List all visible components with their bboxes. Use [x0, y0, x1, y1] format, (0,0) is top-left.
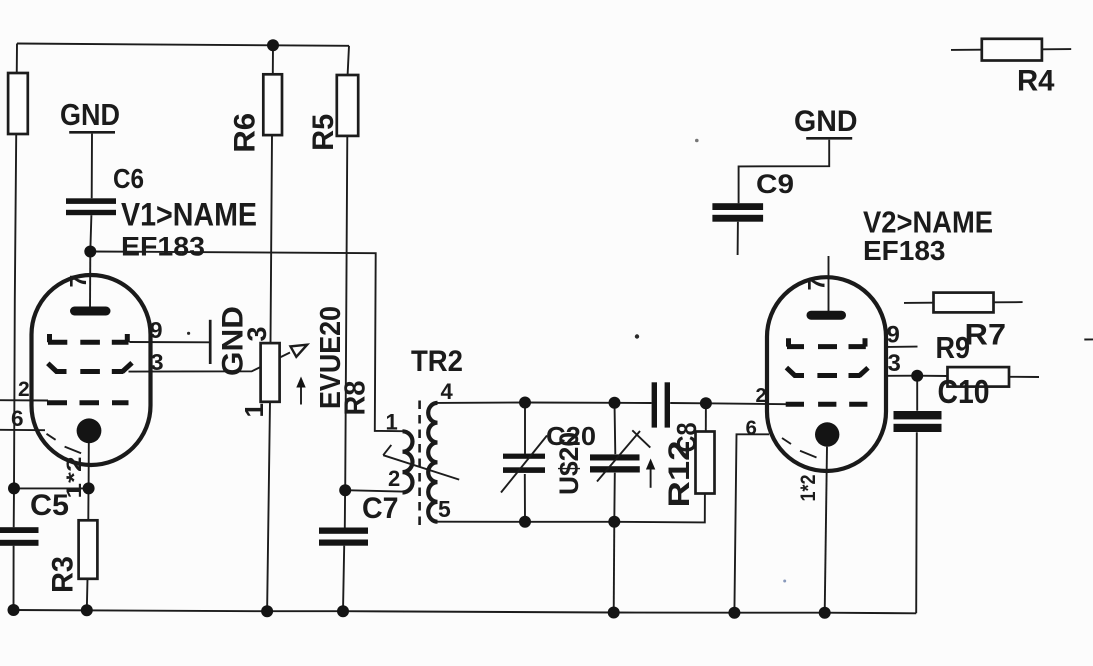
svg-text:GND: GND — [60, 98, 120, 132]
trimmer capacitor U$20 — [554, 430, 650, 495]
svg-text:2: 2 — [388, 466, 400, 491]
wire R12 top lead — [705, 403, 707, 431]
wire R5 branch — [343, 46, 349, 611]
svg-text:C7: C7 — [362, 492, 399, 525]
svg-text:7: 7 — [65, 275, 91, 288]
svg-text:R8: R8 — [340, 381, 372, 416]
gnd symbol top left — [60, 98, 120, 132]
wire left rail — [14, 44, 18, 611]
wire bottom rail — [14, 610, 917, 613]
wire top rail — [17, 44, 349, 46]
wire V1 pin 9 to gnd — [130, 341, 211, 343]
wire C7 node to TR2 primary bottom — [345, 490, 402, 491]
resistor R1 (unnamed, left edge) — [8, 73, 28, 134]
wire R6 branch — [267, 45, 273, 611]
wire V1 pin 2 input stub — [0, 399, 48, 401]
svg-text:TR2: TR2 — [411, 345, 463, 378]
resistor R12 — [663, 432, 715, 508]
svg-text:C6: C6 — [113, 163, 144, 194]
wire C6 to grid-anode node — [90, 134, 92, 252]
arrow up (U$20) — [646, 459, 655, 488]
potentiometer EVUE20 R8 — [239, 306, 372, 418]
svg-text:3: 3 — [888, 350, 901, 377]
gnd symbol rotated (V1 pin 9) — [210, 306, 249, 376]
wire node to TR2 primary top — [90, 252, 402, 432]
svg-text:1*2: 1*2 — [63, 457, 86, 499]
svg-text:C8: C8 — [671, 423, 702, 453]
svg-text:7: 7 — [804, 277, 831, 290]
svg-text:9: 9 — [887, 322, 900, 349]
wire V1 pin 6 stub — [0, 429, 45, 431]
resistor R5 — [307, 75, 358, 151]
svg-text:GND: GND — [217, 306, 250, 376]
resistor R3 — [47, 520, 98, 593]
wire V2 cathode to bottom rail — [825, 447, 827, 613]
svg-text:2: 2 — [756, 385, 767, 407]
wire V1 anode pin 7 — [89, 252, 91, 312]
svg-text:R7: R7 — [965, 319, 1007, 352]
svg-text:4: 4 — [441, 379, 454, 404]
trimmer capacitor C20 — [501, 421, 596, 493]
svg-text:1: 1 — [239, 403, 269, 417]
svg-text:5: 5 — [438, 496, 451, 522]
wire tank bottom rail — [438, 494, 705, 523]
wire R7 leads — [904, 301, 1023, 304]
svg-text:R6: R6 — [229, 113, 262, 153]
svg-text:6: 6 — [11, 406, 24, 431]
svg-text:V1>NAME: V1>NAME — [121, 197, 257, 233]
svg-text:6: 6 — [746, 417, 757, 440]
svg-text:GND: GND — [794, 105, 858, 138]
svg-text:9: 9 — [150, 317, 163, 343]
wire C10 leads — [916, 376, 917, 614]
svg-text:C10: C10 — [938, 373, 990, 410]
specks — [187, 139, 786, 583]
wire tank top rail — [438, 403, 787, 405]
capacitor C10 — [894, 373, 990, 432]
svg-text:2: 2 — [18, 378, 30, 401]
wire right edge stub — [1084, 338, 1093, 340]
resistor R4 — [982, 39, 1055, 98]
capacitor C8 — [652, 382, 702, 452]
wire R4 leads — [951, 48, 1071, 51]
resistor R6 — [229, 74, 283, 153]
transformer TR2 — [383, 345, 463, 527]
capacitor C6 — [66, 163, 144, 215]
svg-text:R3: R3 — [47, 556, 80, 593]
wire V2 pin 6 to bottom rail — [734, 434, 769, 612]
wire V2 pin 3 to R9 — [888, 376, 1039, 377]
capacitor C7 — [319, 492, 399, 546]
wire U$20 leads — [614, 403, 615, 522]
wire V2 anode stub — [828, 256, 830, 315]
svg-text:3: 3 — [151, 349, 164, 375]
svg-text:EF183: EF183 — [863, 235, 946, 266]
wire C20 leads — [524, 403, 526, 522]
arrow up (pot) — [296, 377, 305, 405]
svg-text:C9: C9 — [756, 169, 794, 199]
capacitor C5 — [0, 489, 69, 546]
svg-text:R5: R5 — [307, 114, 340, 151]
vacuum tube V1 EF183 — [11, 197, 257, 499]
svg-text:1: 1 — [386, 409, 398, 434]
wire V2 pin 9 stub — [888, 346, 918, 348]
wire V1 cathode to R3 — [87, 443, 89, 610]
wire U$20 node to bottom rail — [613, 522, 616, 613]
capacitor C9 — [712, 169, 794, 222]
svg-text:EF183: EF183 — [121, 231, 205, 261]
wire gnd to C9 — [738, 140, 830, 255]
wire V1 pin 3 to wiper — [129, 353, 291, 372]
gnd symbol top right — [794, 105, 858, 138]
svg-text:R4: R4 — [1017, 65, 1055, 98]
vacuum tube V2 EF183 — [746, 205, 994, 502]
wire cathode node to left rail — [14, 487, 89, 489]
svg-text:1*2: 1*2 — [797, 475, 820, 502]
resistor R7 — [934, 293, 1007, 352]
resistor R9 — [936, 330, 1010, 387]
svg-text:U$20: U$20 — [554, 432, 584, 495]
